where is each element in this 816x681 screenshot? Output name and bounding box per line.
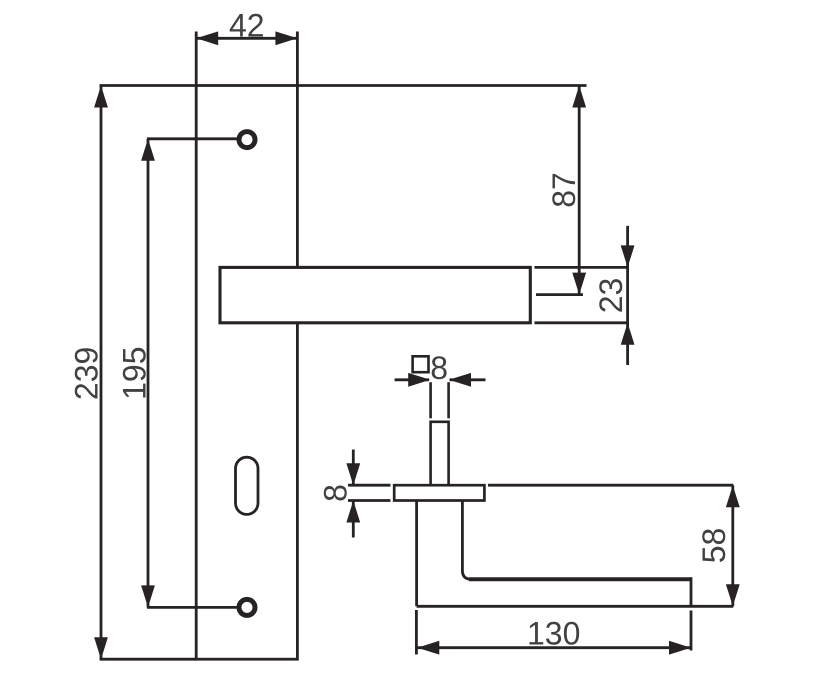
handle side view top edge: [488, 484, 733, 487]
bottom screw hole: [239, 599, 255, 615]
spindle square symbol: [413, 356, 429, 372]
svg-text:195: 195: [116, 347, 152, 400]
keyhole slot: [236, 457, 259, 514]
handle side view arm outer edge: [415, 501, 418, 607]
dimension 130 grip length: [416, 610, 691, 655]
dimension 87 handle axis from plate top: [297, 86, 586, 295]
dimension 23 handle bar height: [535, 226, 635, 365]
dimension 8 rose thickness: [317, 450, 390, 538]
svg-text:58: 58: [696, 528, 732, 564]
dimension 42 plate width: [196, 8, 297, 86]
top screw hole: [239, 132, 255, 148]
svg-text:87: 87: [546, 172, 582, 208]
handle side view grip top thick edge: [469, 577, 691, 581]
dimension 8 spindle: [395, 350, 486, 387]
svg-text:42: 42: [229, 8, 265, 44]
lever handle front view: [220, 267, 530, 322]
dimension 239 plate height: [68, 86, 196, 660]
handle side view bottom edge: [417, 605, 734, 608]
svg-text:130: 130: [527, 616, 580, 652]
rose plate side view: [394, 485, 484, 500]
backplate front view: [196, 86, 297, 660]
dimension 58 handle depth: [696, 485, 740, 606]
svg-text:23: 23: [593, 278, 629, 314]
handle side view grip right edge: [690, 577, 693, 606]
spindle side view: [431, 382, 449, 418]
svg-text:8: 8: [317, 484, 353, 502]
dimension 195 screw hole spacing: [116, 139, 238, 608]
svg-text:239: 239: [68, 347, 104, 400]
handle neck side view: [431, 422, 449, 485]
svg-text:8: 8: [430, 350, 448, 386]
handle side view arm inner edge with fillet: [462, 501, 471, 580]
